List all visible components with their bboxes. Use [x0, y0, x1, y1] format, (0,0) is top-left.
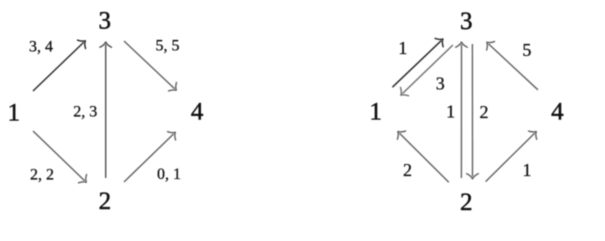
svg-text:1: 1	[369, 98, 382, 125]
svg-text:2: 2	[99, 188, 112, 215]
wire edge 2->3 (right graph, left vertical)	[456, 42, 468, 178]
svg-text:4: 4	[191, 99, 204, 126]
svg-text:2: 2	[403, 160, 412, 180]
svg-text:1: 1	[398, 38, 407, 58]
svg-text:4: 4	[551, 98, 564, 125]
svg-text:2, 2: 2, 2	[30, 166, 54, 183]
svg-text:1: 1	[446, 102, 455, 122]
svg-text:2: 2	[460, 189, 473, 216]
wire edge 4->3 (right graph)	[483, 38, 538, 90]
wire edge 2->3 (left graph)	[100, 42, 112, 178]
svg-text:3: 3	[436, 74, 445, 94]
svg-text:1: 1	[8, 100, 21, 127]
svg-text:3: 3	[460, 8, 473, 35]
wire edge 1->2 (left graph)	[33, 131, 91, 187]
svg-text:2, 3: 2, 3	[73, 103, 97, 120]
svg-text:5: 5	[522, 40, 531, 60]
svg-text:0, 1: 0, 1	[157, 166, 181, 183]
wire edge 2->4 (left graph)	[124, 128, 180, 182]
svg-text:1: 1	[523, 160, 532, 180]
svg-text:2: 2	[480, 102, 489, 122]
wire edge 3->2 (right graph, right vertical)	[467, 44, 479, 179]
wire edge 3->4 (left graph)	[124, 41, 181, 95]
svg-text:5, 5: 5, 5	[156, 38, 180, 55]
svg-text:3: 3	[98, 8, 111, 35]
wire edge 2->4 (right graph)	[486, 127, 541, 181]
wire edge 1->3 (left graph)	[33, 36, 90, 91]
wire edge 2->1 (right graph)	[393, 127, 448, 182]
wire edge 3->1 (right graph)	[397, 45, 453, 100]
wire edge 1->3 (right graph, dark line)	[392, 35, 447, 88]
svg-text:3, 4: 3, 4	[29, 39, 53, 56]
